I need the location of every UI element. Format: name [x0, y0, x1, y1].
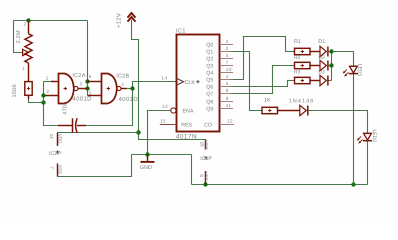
potentiometer 2.2M [23, 21, 32, 82]
diode D2 [320, 60, 328, 70]
svg-text:8: 8 [199, 174, 204, 177]
junction dot gate A input2 [41, 93, 45, 97]
svg-text:IC2B: IC2B [116, 74, 129, 80]
svg-text:14: 14 [49, 134, 54, 140]
LED1 [343, 66, 358, 76]
clock input mark [177, 78, 184, 85]
svg-text:6: 6 [226, 88, 229, 93]
svg-text:14: 14 [161, 75, 167, 80]
IC1 4017N box [177, 35, 220, 132]
svg-text:Q9: Q9 [206, 106, 213, 112]
svg-text:11: 11 [226, 103, 232, 108]
svg-text:+12V: +12V [115, 13, 122, 28]
wire Q6 net to R3 [230, 81, 295, 87]
wire gate A input2 [44, 95, 49, 97]
svg-text:LED2: LED2 [371, 130, 377, 143]
svg-text:Q3: Q3 [206, 63, 213, 69]
IC2P power symbol [57, 133, 59, 147]
wire gate B output link [127, 88, 133, 90]
wire 1N4148 to LED2 [309, 111, 368, 134]
junction dot gate B output [130, 86, 134, 90]
svg-text:R1: R1 [294, 39, 301, 45]
svg-text:2: 2 [226, 46, 229, 51]
svg-text:1: 1 [46, 75, 49, 80]
svg-text:VSS: VSS [58, 165, 63, 174]
svg-text:Q8: Q8 [206, 99, 213, 105]
junction dot IC2A output [85, 86, 89, 90]
junction dot D1 cathode [329, 49, 333, 53]
svg-text:1: 1 [226, 74, 229, 79]
IC1 pins Q0-Q9 [220, 45, 234, 109]
svg-text:9: 9 [226, 96, 229, 101]
svg-text:4001D: 4001D [72, 96, 92, 103]
svg-text:D1: D1 [318, 39, 325, 45]
svg-text:VSS: VSS [203, 172, 208, 181]
wire 150K bottom link [29, 99, 44, 102]
svg-text:6: 6 [89, 74, 92, 79]
IC1P power symbol [205, 140, 207, 150]
svg-text:4: 4 [226, 53, 229, 58]
junction dot IC1P VSS [203, 182, 207, 186]
wire LED2 cathode [367, 141, 369, 184]
+12V supply symbol [128, 13, 136, 22]
svg-text:1N4148: 1N4148 [289, 98, 314, 104]
svg-text:3: 3 [226, 39, 229, 44]
gate IC2A 4001D [46, 74, 88, 104]
wire oscillator feedback vertical [44, 82, 59, 126]
svg-text:D2: D2 [318, 55, 325, 61]
svg-text:IC2A: IC2A [72, 73, 85, 79]
svg-text:CLK: CLK [185, 80, 196, 86]
wire +12V stem and rail [132, 20, 139, 133]
wire GND right leg [191, 155, 193, 185]
wire diode cathode bus [331, 52, 333, 81]
svg-text:Q5: Q5 [206, 77, 213, 83]
resistor R3 [295, 77, 321, 83]
svg-text:12: 12 [227, 119, 233, 124]
wire D3 stub [329, 80, 332, 82]
pin CO 12 [220, 124, 235, 126]
resistor R1 [295, 48, 321, 54]
resistor R2 [295, 62, 321, 68]
svg-text:15: 15 [160, 119, 166, 124]
gate IC2B 4001D [88, 74, 127, 104]
IC1 origin cross [196, 80, 199, 83]
wire D1 to LED1 anode [329, 52, 354, 67]
svg-text:Q4: Q4 [206, 70, 213, 76]
svg-text:Q0: Q0 [206, 42, 213, 48]
wire Q1 net to 1K [230, 52, 262, 111]
wire vertical down to IC2B inputs [87, 21, 89, 96]
junction dot IC2B input 6 [85, 79, 89, 83]
svg-text:Q7: Q7 [206, 91, 213, 97]
svg-text:5: 5 [89, 90, 92, 95]
svg-text:CO: CO [204, 123, 212, 129]
node A junction dot [26, 18, 30, 22]
LED2 [357, 133, 372, 143]
svg-text:10: 10 [226, 67, 232, 72]
pin RES 15 [160, 124, 177, 126]
wire GND to IC2P VSS [58, 155, 132, 177]
wire LED1 cathode [353, 74, 355, 184]
wire CLK net [133, 82, 177, 89]
svg-text:GND: GND [140, 165, 152, 171]
svg-text:LED1: LED1 [356, 64, 362, 77]
svg-text:150K: 150K [12, 84, 18, 98]
svg-text:7: 7 [49, 166, 54, 169]
wire ENA to GND net [148, 111, 171, 155]
wire D2 stub [329, 65, 332, 67]
pin ENA 13 [171, 108, 176, 113]
ground symbol [147, 155, 149, 162]
junction dot LED1 cathode at rail [351, 182, 355, 186]
svg-text:2: 2 [24, 22, 27, 27]
svg-text:IC1: IC1 [176, 27, 186, 34]
svg-text:R3: R3 [294, 69, 301, 75]
svg-text:Q1: Q1 [206, 49, 213, 55]
resistor 1K [262, 107, 300, 113]
diode 1N4148 [300, 105, 308, 115]
svg-text:4017N: 4017N [176, 133, 197, 140]
svg-text:Q2: Q2 [206, 56, 213, 62]
junction dot 150K link [41, 100, 45, 104]
svg-text:1K: 1K [264, 97, 271, 103]
svg-text:IC2P: IC2P [49, 151, 61, 157]
junction dot GND [145, 152, 149, 156]
svg-text:D3: D3 [318, 69, 325, 75]
wire pot wiper feed [14, 21, 24, 53]
wire cap right plate to gate B output node [86, 89, 133, 126]
wire Q5 net to R1 [230, 37, 295, 80]
resistor 150K [25, 82, 32, 100]
svg-text:ENA: ENA [183, 109, 194, 115]
wire +12V rail to IC2P VDD [58, 132, 139, 134]
svg-text:2: 2 [46, 89, 49, 94]
svg-text:VDD: VDD [58, 134, 63, 144]
wire GND row [132, 154, 192, 156]
svg-text:470n: 470n [62, 101, 68, 114]
svg-text:VDD: VDD [203, 140, 208, 150]
wire gate A input1 [44, 81, 55, 83]
wire Q7 net to R2 [230, 66, 295, 94]
svg-text:R2: R2 [294, 55, 301, 61]
junction dot +12V rail [136, 130, 140, 134]
junction dot D2 cathode [329, 63, 333, 67]
diode D3 [320, 75, 328, 85]
capacitor 470n [58, 118, 86, 133]
wire top link pot to gate B inputs [14, 20, 88, 22]
svg-text:7: 7 [226, 60, 229, 65]
svg-text:13: 13 [162, 104, 168, 109]
svg-text:RES: RES [181, 123, 192, 129]
svg-text:2.2M: 2.2M [16, 30, 22, 43]
svg-text:Q6: Q6 [206, 84, 213, 90]
svg-text:3: 3 [80, 82, 83, 87]
wire bottom rail [192, 184, 368, 186]
wire VDD jog to IC1P [139, 133, 206, 140]
svg-text:4: 4 [121, 82, 124, 87]
svg-text:4001D: 4001D [119, 96, 139, 103]
svg-text:5: 5 [226, 81, 229, 86]
svg-text:1: 1 [22, 66, 25, 71]
diode D1 [320, 46, 328, 56]
